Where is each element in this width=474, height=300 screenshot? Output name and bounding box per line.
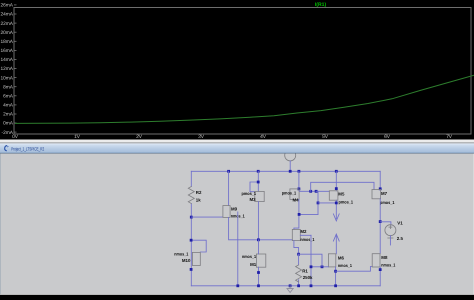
- node dot gate row a: [309, 190, 312, 193]
- schematic pane background: [0, 154, 474, 296]
- node dot M5 drain row: [335, 202, 338, 205]
- wire M4 source: [298, 171, 300, 189]
- node dot M2 source R1: [297, 253, 300, 256]
- bias current source (top, clipped): [285, 150, 296, 161]
- svg-text:6mA: 6mA: [3, 94, 14, 100]
- node dot R2 bottom: [190, 216, 193, 219]
- wire M5 drain with down arrow: [333, 200, 339, 221]
- wire rail right riser: [379, 171, 381, 189]
- svg-text:26mA: 26mA: [0, 3, 13, 9]
- svg-text:M5: M5: [338, 192, 345, 197]
- node dot M3 gate tap: [257, 181, 260, 184]
- node dot M10 source: [190, 268, 193, 271]
- transistor M4: [290, 189, 299, 200]
- svg-text:M6: M6: [338, 255, 345, 260]
- node dot M5 source: [335, 187, 338, 190]
- svg-text:M3: M3: [250, 197, 257, 202]
- plot border: [14, 8, 471, 135]
- svg-text:M4: M4: [293, 197, 300, 202]
- svg-text:18mA: 18mA: [0, 39, 13, 45]
- node dot mid riser: [317, 202, 320, 205]
- svg-text:pmos_1: pmos_1: [242, 191, 257, 196]
- wire M3 drain down: [257, 202, 259, 240]
- transistor M9: [223, 206, 230, 218]
- voltage source V1: [385, 225, 396, 238]
- x axis labels: [12, 134, 453, 140]
- wire M8 source to rail: [379, 267, 381, 286]
- x axis ticks: [77, 134, 449, 136]
- svg-text:4mA: 4mA: [3, 103, 14, 109]
- wire bias to rail: [289, 161, 291, 171]
- green current trace: [15, 75, 474, 123]
- wire gate feed from M2 source node: [299, 254, 322, 267]
- node dot M6 source gate wire: [334, 270, 337, 273]
- svg-text:nmos_1: nmos_1: [300, 237, 314, 242]
- node dot M4 source: [298, 188, 301, 191]
- svg-text:M2: M2: [300, 229, 307, 234]
- svg-text:16mA: 16mA: [0, 48, 13, 54]
- svg-text:1k: 1k: [196, 198, 201, 203]
- svg-text:R2: R2: [196, 190, 202, 195]
- svg-text:nmos_1: nmos_1: [174, 251, 188, 256]
- node dot gate row b: [315, 190, 318, 193]
- svg-text:8mA: 8mA: [3, 84, 14, 90]
- transistor M10: [192, 252, 200, 265]
- wire M5 source: [335, 171, 337, 191]
- resistor R1 leads: [298, 254, 300, 265]
- wire M4 drain to M2: [294, 199, 299, 229]
- svg-text:nmos_1: nmos_1: [242, 254, 256, 259]
- wire 311 column: [310, 235, 312, 285]
- resistor R2 body: [188, 187, 194, 204]
- wire M9 drain: [228, 171, 230, 205]
- wire M2 source to R1: [294, 241, 299, 255]
- wire M1 source: [258, 267, 260, 286]
- svg-text:2mA: 2mA: [3, 112, 14, 118]
- wire M6 source down: [335, 267, 337, 286]
- svg-text:22mA: 22mA: [0, 21, 13, 27]
- node dot M7 source: [379, 187, 382, 190]
- node dot gate row at 311: [310, 265, 313, 268]
- svg-text:R1: R1: [302, 268, 308, 273]
- node dot M8 source: [379, 268, 382, 271]
- svg-text:0mA: 0mA: [3, 121, 14, 127]
- svg-text:V1: V1: [397, 221, 403, 226]
- wire M9 bulk column: [237, 212, 239, 286]
- y axis labels: [0, 3, 13, 136]
- svg-text:2.5: 2.5: [397, 236, 404, 241]
- svg-text:M1: M1: [250, 262, 257, 267]
- svg-text:M8: M8: [381, 255, 388, 260]
- svg-text:pmos_1: pmos_1: [339, 200, 354, 205]
- waveform pane background: [0, 0, 474, 140]
- wire riser to M5 drain: [318, 202, 336, 204]
- node dots on bottom rail: [236, 284, 337, 287]
- svg-text:M9: M9: [231, 207, 238, 212]
- resistor R1 body: [296, 265, 302, 282]
- wire M6 gate row: [311, 266, 328, 268]
- up arrow to M6 drain: [333, 234, 339, 254]
- y axis ticks: [14, 5, 17, 132]
- wire M2 drain node: [299, 213, 318, 215]
- wire M8 gate link: [336, 267, 373, 272]
- transistor M8: [372, 254, 380, 267]
- svg-text:pmos_1: pmos_1: [380, 200, 395, 205]
- svg-text:14mA: 14mA: [0, 57, 13, 63]
- svg-text:nmos_1: nmos_1: [338, 263, 352, 268]
- svg-text:10mA: 10mA: [0, 75, 13, 81]
- transistor M3: [255, 191, 264, 201]
- wire M9 source to stage1 node: [229, 217, 293, 239]
- node dots on top rail: [227, 170, 337, 173]
- wire top rail: [191, 170, 380, 172]
- transistor M3 gate loop: [250, 182, 258, 192]
- transistor M7: [372, 190, 381, 199]
- svg-text:250k: 250k: [303, 275, 313, 280]
- ground symbol: [287, 286, 293, 293]
- title bar icon: [5, 146, 9, 151]
- wire left branch down: [190, 217, 192, 286]
- wire V1 minus stub: [389, 236, 391, 245]
- node dot M1 source: [257, 271, 260, 274]
- transistor M10 loop: [191, 240, 206, 252]
- node dot M10 loop tap: [190, 239, 193, 242]
- node dot V1 tap: [379, 220, 382, 223]
- transistor M6: [328, 254, 335, 267]
- transistor M2: [292, 229, 300, 240]
- bottom ground rail: [191, 285, 380, 287]
- svg-text:pmos_1: pmos_1: [282, 191, 297, 196]
- node dot M2 drain: [298, 213, 301, 216]
- window frame strip: [0, 140, 474, 143]
- resistor R2 leads: [190, 171, 192, 186]
- wire M2 bulk stub: [300, 234, 311, 236]
- svg-text:0V: 0V: [12, 134, 19, 140]
- svg-text:12mA: 12mA: [0, 66, 13, 72]
- svg-text:M7: M7: [381, 191, 388, 196]
- node dot stage1: [257, 238, 260, 241]
- transistor M5: [329, 191, 338, 200]
- wire M7 drain to M8 drain: [379, 199, 381, 254]
- wire mid riser: [316, 191, 318, 214]
- svg-text:nmos_1: nmos_1: [381, 263, 395, 268]
- svg-text:20mA: 20mA: [0, 30, 13, 36]
- wire M9 gate: [191, 216, 223, 218]
- svg-text:I(R1): I(R1): [315, 2, 327, 8]
- svg-text:24mA: 24mA: [0, 12, 13, 18]
- svg-text:M10: M10: [182, 258, 191, 263]
- svg-text:Project_1_LTSPICE_R2: Project_1_LTSPICE_R2: [11, 147, 44, 153]
- node dot gate row at 322: [321, 265, 324, 268]
- wire M1 drain: [258, 240, 260, 254]
- wire M3 source: [257, 171, 259, 191]
- wire V1 plus lead: [380, 222, 391, 225]
- transistor M1: [256, 254, 265, 267]
- wire M7 gate feed: [311, 182, 374, 191]
- wire M4/M5 gate row: [300, 190, 330, 192]
